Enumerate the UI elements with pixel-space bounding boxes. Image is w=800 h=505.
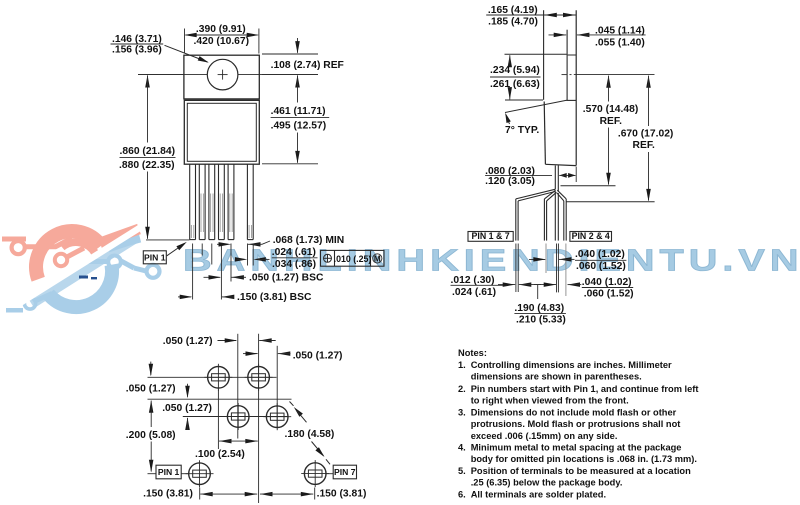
- svg-text:body for omitted pin locations: body for omitted pin locations is .068 i…: [471, 454, 697, 464]
- svg-text:.420 (10.67): .420 (10.67): [194, 36, 250, 47]
- svg-text:.050 (1.27) BSC: .050 (1.27) BSC: [249, 273, 324, 284]
- svg-text:2.: 2.: [458, 384, 466, 394]
- svg-text:.461 (11.71): .461 (11.71): [271, 106, 326, 117]
- svg-text:.185 (4.70): .185 (4.70): [488, 17, 538, 28]
- svg-text:.050 (1.27): .050 (1.27): [162, 403, 212, 414]
- svg-text:.108 (2.74) REF: .108 (2.74) REF: [271, 60, 344, 71]
- svg-text:dimensions are shown in parent: dimensions are shown in parentheses.: [471, 372, 642, 382]
- svg-text:.200 (5.08): .200 (5.08): [126, 430, 176, 441]
- svg-text:.040 (1.02): .040 (1.02): [575, 249, 625, 260]
- svg-text:.234 (5.94): .234 (5.94): [490, 65, 540, 76]
- svg-text:REF.: REF.: [600, 116, 622, 127]
- svg-text:to right when viewed from the: to right when viewed from the front.: [471, 395, 629, 405]
- svg-text:REF.: REF.: [633, 140, 655, 151]
- svg-text:PIN 1: PIN 1: [144, 253, 166, 263]
- svg-text:.150 (3.81): .150 (3.81): [143, 488, 193, 499]
- svg-text:PIN 2 & 4: PIN 2 & 4: [572, 231, 610, 241]
- svg-text:.050 (1.27): .050 (1.27): [163, 336, 213, 347]
- svg-text:.012 (.30): .012 (.30): [451, 275, 495, 286]
- svg-text:.060 (1.52): .060 (1.52): [576, 261, 626, 272]
- svg-text:.055 (1.40): .055 (1.40): [595, 37, 645, 48]
- svg-text:.100 (2.54): .100 (2.54): [195, 449, 245, 460]
- svg-text:1.: 1.: [458, 360, 466, 370]
- svg-text:.25 (6.35) below the package b: .25 (6.35) below the package body.: [471, 478, 623, 488]
- svg-text:.068 (1.73) MIN: .068 (1.73) MIN: [273, 235, 345, 246]
- svg-text:4.: 4.: [458, 442, 466, 452]
- svg-text:.050 (1.27): .050 (1.27): [293, 351, 343, 362]
- svg-text:.670 (17.02): .670 (17.02): [618, 129, 674, 140]
- svg-text:.150 (3.81): .150 (3.81): [317, 488, 367, 499]
- svg-text:.880 (22.35): .880 (22.35): [119, 160, 175, 171]
- svg-text:7° TYP.: 7° TYP.: [505, 125, 539, 136]
- svg-text:Position of terminals to be me: Position of terminals to be measured at …: [471, 466, 691, 476]
- svg-text:.040 (1.02): .040 (1.02): [582, 277, 632, 288]
- svg-text:Dimensions do not include mold: Dimensions do not include mold flash or …: [471, 408, 677, 418]
- svg-text:3.: 3.: [458, 408, 466, 418]
- svg-text:.120 (3.05): .120 (3.05): [485, 176, 535, 187]
- svg-text:.024 (.61): .024 (.61): [452, 287, 496, 298]
- svg-text:.060 (1.52): .060 (1.52): [584, 288, 634, 299]
- svg-text:.570 (14.48): .570 (14.48): [583, 104, 639, 115]
- svg-text:.010 (.25): .010 (.25): [334, 254, 372, 264]
- svg-text:Pin numbers start with Pin 1,: Pin numbers start with Pin 1, and contin…: [471, 384, 699, 394]
- svg-text:protrusions. Mold flash or pr: protrusions. Mold flash or protrusions s…: [471, 419, 681, 429]
- svg-text:.390 (9.91): .390 (9.91): [196, 24, 246, 35]
- svg-text:.860 (21.84): .860 (21.84): [120, 146, 176, 157]
- svg-text:.261 (6.63): .261 (6.63): [490, 79, 540, 90]
- svg-text:exceed .006 (.15mm) on any sid: exceed .006 (.15mm) on any side.: [471, 431, 618, 441]
- svg-text:.180 (4.58): .180 (4.58): [285, 429, 335, 440]
- svg-text:Minimum metal to metal spacing: Minimum metal to metal spacing at the pa…: [471, 442, 682, 452]
- svg-text:.210 (5.33): .210 (5.33): [516, 314, 566, 325]
- svg-text:.150 (3.81) BSC: .150 (3.81) BSC: [237, 292, 312, 303]
- svg-text:5.: 5.: [458, 466, 466, 476]
- svg-text:.146 (3.71): .146 (3.71): [112, 34, 162, 45]
- svg-text:.050 (1.27): .050 (1.27): [126, 384, 176, 395]
- svg-text:PIN 1 & 7: PIN 1 & 7: [472, 231, 510, 241]
- svg-text:PIN 7: PIN 7: [334, 467, 356, 477]
- svg-text:.024 (.61): .024 (.61): [272, 247, 316, 258]
- svg-text:.495 (12.57): .495 (12.57): [271, 120, 327, 131]
- svg-text:Controlling dimensions are inc: Controlling dimensions are inches. Milli…: [471, 360, 672, 370]
- svg-text:.190 (4.83): .190 (4.83): [514, 303, 564, 314]
- svg-text:All terminals are solder plate: All terminals are solder plated.: [471, 489, 606, 499]
- svg-text:Notes:: Notes:: [458, 348, 487, 358]
- svg-text:6.: 6.: [458, 489, 466, 499]
- svg-text:.034 (.86): .034 (.86): [272, 259, 316, 270]
- svg-text:.156 (3.96): .156 (3.96): [112, 45, 162, 56]
- svg-text:.045 (1.14): .045 (1.14): [595, 26, 645, 37]
- svg-text:PIN 1: PIN 1: [158, 467, 180, 477]
